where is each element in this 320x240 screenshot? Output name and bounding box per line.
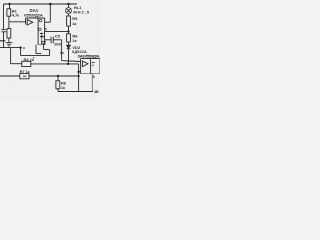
wire R8 bottom [57, 89, 59, 92]
capacitor C4 plate 2 [41, 43, 46, 45]
op-amp DA1 right edge [44, 18, 46, 45]
node junction dot R1 [8, 3, 10, 5]
ground bar 2 [7, 44, 11, 46]
wire V7 [10, 48, 12, 64]
svg-text:R7 1к: R7 1к [20, 69, 30, 74]
node junction dot mid rail [19, 46, 21, 48]
wire diode bottom [68, 49, 70, 64]
pin mark blob 2 [40, 36, 44, 38]
pin dash DA2 2 [92, 64, 94, 66]
pin wire C4 [41, 34, 43, 44]
pin circle 1 [39, 19, 42, 22]
wire H7 [11, 63, 22, 65]
op-amp DA2 left edge [80, 59, 82, 74]
wire left branch lower [3, 32, 5, 48]
svg-text:200: 200 [54, 42, 61, 47]
diode VD2 [67, 45, 71, 48]
wire R2 top [8, 22, 10, 29]
resistor R7 inner mark [23, 75, 26, 77]
wire C4 bottom [43, 44, 45, 50]
svg-text:2к: 2к [72, 38, 76, 43]
wire V5 [61, 40, 63, 61]
paper noise [0, 0, 100, 100]
wire H3 [44, 49, 50, 51]
capacitor C4 plate 1 [41, 41, 46, 43]
wire R6 top [68, 31, 70, 33]
node junction dot output lamp [67, 30, 69, 32]
resistor R1 [7, 9, 11, 16]
capacitor C5 plate 1 [50, 37, 52, 44]
wire R5 bottom [68, 26, 70, 31]
wire V2 [49, 50, 51, 56]
wire R1 bottom [8, 16, 10, 22]
svg-text:1к: 1к [60, 51, 64, 55]
resistor R5 [67, 16, 71, 26]
op-amp DA2 bottom edge [81, 73, 100, 75]
svg-text:К553УД2А: К553УД2А [24, 13, 43, 18]
resistor R8 [56, 81, 60, 89]
op-amp DA1 top edge [26, 17, 45, 19]
svg-text:5: 5 [45, 27, 47, 31]
wire V8 [35, 45, 37, 54]
resistor R2 [7, 29, 11, 38]
wire DA2 pin 2 vertical [91, 74, 93, 92]
wire H4 [45, 39, 51, 41]
wire left branch upper [3, 4, 5, 29]
op-amp DA2 right edge [99, 59, 101, 74]
lamp HL1 wire bottom [68, 14, 70, 16]
wire R6 bottom [68, 42, 70, 45]
node junction dot lamp branch [67, 3, 69, 5]
resistor R7 on rail [20, 74, 29, 79]
wire H6 to DA2 [62, 60, 81, 63]
resistor R6 [67, 34, 71, 42]
wire DA2 input stub [79, 71, 81, 73]
ground bar 1 [6, 42, 13, 44]
svg-text:МН2,5: МН2,5 [73, 10, 89, 15]
wire DA1 output line [45, 30, 69, 32]
op-amp DA2 top edge [81, 58, 100, 60]
wire top rail [4, 3, 78, 5]
svg-text:4,7к: 4,7к [12, 13, 19, 18]
node junction dot bottom rail [78, 75, 80, 77]
wire input to DA1 [9, 21, 26, 23]
lamp HL1 circle [66, 8, 72, 14]
wire ground stub [8, 45, 10, 48]
lamp HL1 cross [66, 8, 71, 13]
node junction dot diode net [67, 63, 69, 65]
op-amp DA1 left edge [25, 18, 27, 25]
wire R8 top [57, 76, 59, 81]
op-amp DA2 triangle [82, 61, 88, 67]
wire H5 [54, 39, 62, 41]
svg-text:VD2: VD2 [72, 45, 81, 50]
capacitor C1 plates [1, 30, 6, 32]
lamp HL1 wire top [68, 4, 70, 8]
wire H7b [31, 63, 79, 65]
node junction dot DA2 input [77, 71, 79, 73]
capacitor C5 plate 2 [52, 37, 54, 44]
wire DA2 pin vertical [78, 64, 80, 92]
op-amp DA1 triangle [27, 20, 33, 25]
op-amp DA2 divider [90, 59, 92, 74]
wire R1 top [9, 4, 11, 9]
svg-text:8: 8 [93, 75, 95, 79]
wire bottom rail [0, 75, 79, 77]
pin dash DA2 1 [92, 62, 95, 64]
svg-text:С5: С5 [55, 33, 61, 38]
resistor R3 horizontal [22, 61, 31, 66]
diode VD2 bar [67, 48, 71, 50]
op-amp DA1 divider [37, 18, 39, 45]
svg-text:1к: 1к [61, 85, 65, 90]
wire DA1 power vertical [49, 4, 51, 22]
wire DA1 power [45, 21, 51, 23]
op-amp DA1 bottom edge [38, 44, 45, 46]
svg-text:DA2 К553УД2А: DA2 К553УД2А [78, 53, 100, 58]
node junction dot DA1 power [49, 3, 52, 6]
pin mark blob 1 [40, 32, 43, 34]
wire R2 bottom [8, 38, 10, 42]
wire H8 [36, 53, 42, 55]
wire H2 [21, 55, 50, 57]
wire mid rail [0, 47, 21, 49]
value label C2 blob [0, 40, 5, 42]
svg-text:4В: 4В [94, 90, 99, 94]
node junction dot R8 [57, 75, 59, 77]
pin circle 2 [39, 28, 42, 31]
wire V1 [20, 48, 22, 56]
wire bottom lower [58, 91, 93, 93]
svg-text:к: к [23, 46, 25, 50]
svg-text:1к: 1к [72, 21, 76, 26]
